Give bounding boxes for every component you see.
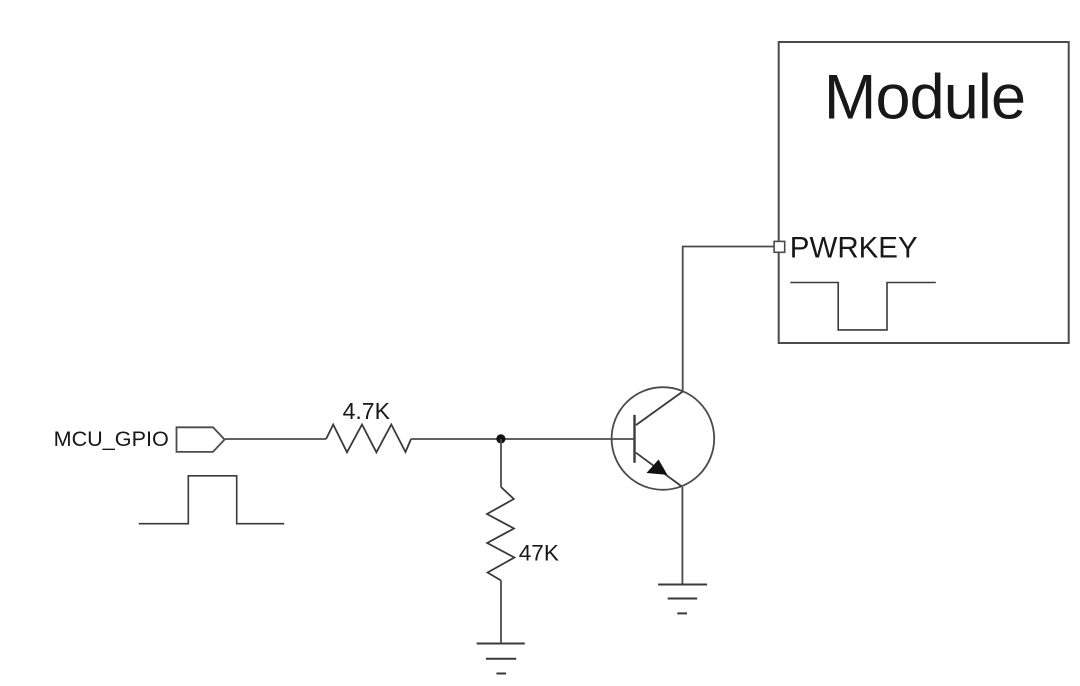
node A junction dot — [496, 434, 505, 443]
net label MCU_GPIO — [54, 426, 169, 451]
wire base (node to transistor) — [501, 438, 635, 440]
transistor Q1 collector stroke — [636, 391, 683, 425]
pin label PWRKEY — [790, 231, 918, 264]
module label "Module" — [824, 63, 1025, 133]
wire resistor R1 to node A — [411, 438, 501, 440]
resistor R1 value label 4.7K — [343, 398, 391, 424]
MCU_GPIO waveform (active-high pulse) — [139, 476, 284, 524]
wire node A down to resistor R2 — [500, 439, 502, 487]
module U1 box — [779, 42, 1069, 343]
resistor R2 value label 47K — [519, 541, 559, 566]
transistor Q1 emitter arrow — [648, 460, 667, 474]
svg-text:PWRKEY: PWRKEY — [790, 231, 918, 264]
svg-text:MCU_GPIO: MCU_GPIO — [54, 426, 169, 451]
transistor Q1 emitter stroke — [636, 453, 682, 487]
transistor Q1 circle — [612, 387, 715, 490]
ground symbol (emitter) — [658, 585, 707, 614]
port MCU_GPIO symbol — [177, 427, 225, 452]
resistor R2 47K zigzag — [487, 487, 514, 581]
svg-text:47K: 47K — [519, 541, 559, 566]
svg-text:4.7K: 4.7K — [343, 398, 391, 424]
wire resistor R2 to ground — [500, 581, 502, 644]
PWRKEY waveform (active-low pulse) — [790, 283, 936, 330]
pin PWRKEY square pad — [774, 241, 785, 252]
wire MCU_GPIO port to resistor R1 — [225, 438, 326, 440]
svg-text:Module: Module — [824, 63, 1025, 133]
wire PWRKEY pin to collector corner — [683, 247, 774, 392]
ground symbol (below R2) — [477, 644, 525, 674]
resistor R1 4.7K zigzag — [326, 425, 411, 453]
transistor Q1 base bar — [633, 415, 635, 463]
wire emitter to ground — [681, 487, 683, 585]
